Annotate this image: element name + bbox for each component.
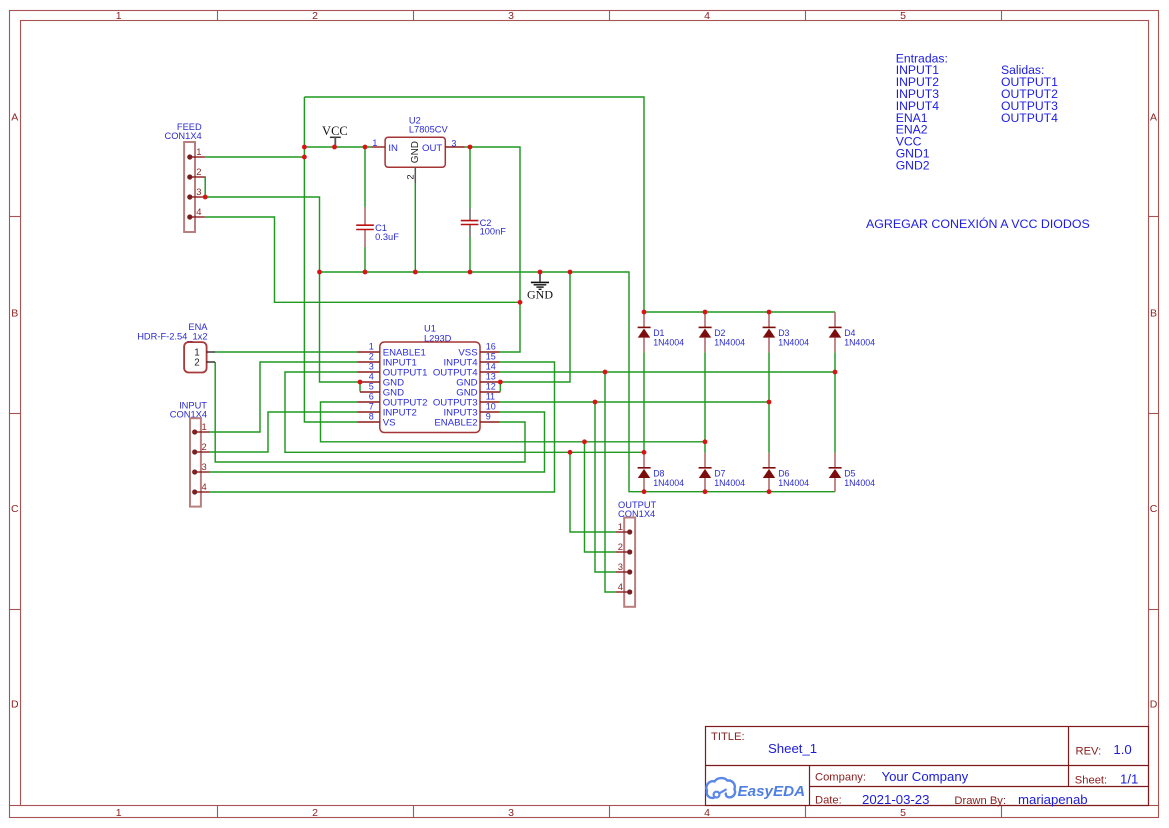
junction VCC rail at trunk bbox=[302, 145, 307, 150]
svg-text:4: 4 bbox=[704, 10, 710, 22]
svg-text:B: B bbox=[11, 307, 18, 319]
capacitor C2 100nF bbox=[461, 208, 506, 237]
connector OUTPUT CON1X4 bbox=[616, 500, 657, 607]
svg-text:4: 4 bbox=[202, 481, 207, 492]
junction C1 top bbox=[363, 145, 368, 150]
note AGREGAR CONEXION A VCC DIODOS bbox=[866, 216, 1090, 231]
wire ENA pin1 to U1 ENABLE1 bbox=[215, 351, 358, 353]
svg-text:15: 15 bbox=[486, 351, 496, 361]
svg-text:U1: U1 bbox=[424, 323, 436, 333]
wire diode column D4-D5 bbox=[834, 352, 836, 452]
wire INPUT pin3 to U1 INPUT3 bbox=[210, 412, 545, 472]
junction C2 top bbox=[468, 145, 473, 150]
wire diode column D3-D6 bbox=[768, 352, 770, 452]
note Salidas list bbox=[1001, 63, 1058, 125]
junction VCC flag bbox=[332, 145, 337, 150]
junction GND flag at rail bbox=[538, 270, 543, 275]
svg-text:Date:: Date: bbox=[815, 794, 842, 806]
note Entradas list bbox=[896, 51, 948, 172]
svg-text:1N4004: 1N4004 bbox=[653, 337, 684, 347]
svg-text:2: 2 bbox=[312, 10, 318, 22]
svg-text:2: 2 bbox=[196, 166, 201, 177]
wire GND: FEED pin2 jog bbox=[204, 177, 206, 197]
diode D3 1N4004 bbox=[763, 312, 810, 352]
net flag VCC bbox=[322, 124, 348, 147]
wire C2 top connection bbox=[469, 147, 471, 208]
diode D4 1N4004 bbox=[829, 312, 876, 352]
wire GND tie U1 pin4-pin5 bbox=[359, 382, 361, 392]
diode D7 1N4004 bbox=[699, 453, 746, 492]
svg-text:Sheet_1: Sheet_1 bbox=[768, 741, 817, 756]
svg-text:14: 14 bbox=[486, 361, 496, 371]
wire GND tie U1 pin13-pin12 bbox=[499, 382, 501, 392]
wire net OUTPUT4 drop to OUTPUT pin4 bbox=[605, 372, 616, 592]
wire 5V: FEED pin4 tap bbox=[205, 217, 520, 302]
diode D5 1N4004 bbox=[829, 453, 876, 492]
svg-text:6: 6 bbox=[369, 391, 374, 401]
svg-text:A: A bbox=[11, 112, 18, 124]
wire net OUTPUT2: U1 pin6 loop to D2/D7 junction bbox=[321, 402, 706, 442]
junction D4/D5 mid bbox=[833, 370, 838, 375]
svg-text:AGREGAR CONEXIÓN A VCC DIODOS: AGREGAR CONEXIÓN A VCC DIODOS bbox=[866, 216, 1090, 231]
wire U2 pin2 to GND rail bbox=[414, 183, 416, 272]
svg-text:2: 2 bbox=[194, 358, 199, 369]
wire GND rail to diode bottom bus bbox=[320, 272, 836, 492]
svg-text:VCC: VCC bbox=[322, 124, 348, 138]
svg-text:1: 1 bbox=[116, 807, 122, 819]
wire net OUTPUT1 drop to OUTPUT pin1 bbox=[570, 452, 616, 532]
svg-text:12: 12 bbox=[486, 381, 496, 391]
wire net OUTPUT3: U1 pin11 to D3/D6 junction bbox=[500, 401, 770, 403]
svg-text:1N4004: 1N4004 bbox=[778, 337, 809, 347]
wire net OUTPUT3 drop to OUTPUT pin3 bbox=[595, 402, 616, 572]
svg-text:3: 3 bbox=[508, 807, 514, 819]
svg-text:4: 4 bbox=[704, 807, 710, 819]
junction D1 top bus bbox=[642, 310, 647, 315]
svg-text:9: 9 bbox=[486, 411, 491, 421]
junction GND rail left end bbox=[317, 270, 322, 275]
svg-text:2: 2 bbox=[312, 807, 318, 819]
svg-text:1N4004: 1N4004 bbox=[844, 337, 875, 347]
diode D1 1N4004 bbox=[638, 312, 685, 352]
wire C1 top connection bbox=[364, 147, 366, 207]
EasyEDA logo bbox=[706, 778, 805, 800]
svg-text:7: 7 bbox=[369, 401, 374, 411]
svg-text:2: 2 bbox=[369, 351, 374, 361]
svg-text:3: 3 bbox=[202, 461, 207, 472]
wire GND: rail to U1 pin13 bbox=[500, 272, 570, 382]
svg-text:1N4004: 1N4004 bbox=[714, 337, 745, 347]
diode D6 1N4004 bbox=[763, 453, 810, 492]
svg-text:100nF: 100nF bbox=[480, 227, 507, 237]
svg-text:1/1: 1/1 bbox=[1120, 772, 1138, 787]
wire diode column D1-D8 bbox=[643, 352, 645, 452]
connector INPUT CON1X4 bbox=[170, 400, 210, 506]
wire C2 bottom to GND rail bbox=[469, 237, 471, 272]
svg-text:mariapenab: mariapenab bbox=[1018, 792, 1088, 807]
IC U1 L293D bbox=[358, 323, 501, 432]
svg-text:0.3uF: 0.3uF bbox=[375, 232, 399, 242]
svg-text:HDR-F-2.54_1x2: HDR-F-2.54_1x2 bbox=[137, 331, 207, 341]
svg-text:Drawn By:: Drawn By: bbox=[954, 795, 1006, 807]
svg-text:2: 2 bbox=[618, 541, 623, 552]
svg-text:GND: GND bbox=[410, 141, 421, 163]
svg-text:1: 1 bbox=[618, 521, 623, 532]
wire VCC diode top bus bbox=[644, 311, 835, 313]
wire INPUT pin4 to U1 INPUT4 bbox=[210, 362, 555, 492]
svg-text:3: 3 bbox=[508, 10, 514, 22]
junction D2 top bus bbox=[703, 310, 708, 315]
wire net OUTPUT1: U1 pin3 loop to D1/D8 junction bbox=[285, 372, 644, 452]
svg-text:13: 13 bbox=[486, 371, 496, 381]
wire VCC top loop to diode top bus bbox=[304, 97, 644, 312]
svg-text:C: C bbox=[11, 503, 19, 515]
svg-text:Company:: Company: bbox=[815, 772, 866, 784]
junction D2/D7 mid bbox=[703, 439, 708, 444]
svg-text:3: 3 bbox=[196, 186, 201, 197]
junction GND branch at rail bbox=[568, 270, 573, 275]
wire net OUTPUT2 drop to OUTPUT pin2 bbox=[585, 442, 617, 552]
svg-text:D: D bbox=[1150, 699, 1158, 711]
wire INPUT pin2 to U1 INPUT2 bbox=[210, 412, 358, 452]
svg-text:L7805CV: L7805CV bbox=[409, 124, 449, 134]
junction D1/D8 mid bbox=[642, 450, 647, 455]
svg-text:Sheet:: Sheet: bbox=[1075, 775, 1107, 787]
svg-text:1: 1 bbox=[202, 421, 207, 432]
title block bbox=[706, 727, 1149, 807]
junction D6 bottom bus bbox=[767, 489, 772, 494]
connector ENA HDR-F-2.54_1x2 bbox=[137, 322, 215, 372]
junction OUTPUT2 drop bbox=[582, 439, 587, 444]
junction U1 pin4 GND bbox=[358, 380, 363, 385]
junction U1 pin13 GND bbox=[498, 380, 503, 385]
junction D7 bottom bus bbox=[703, 489, 708, 494]
svg-text:1N4004: 1N4004 bbox=[844, 478, 875, 488]
svg-text:A: A bbox=[1150, 112, 1157, 124]
svg-text:REV:: REV: bbox=[1076, 745, 1102, 757]
junction FEED pin1 at trunk bbox=[302, 155, 307, 160]
svg-text:8: 8 bbox=[369, 411, 374, 421]
svg-text:GND: GND bbox=[527, 288, 553, 302]
svg-text:4: 4 bbox=[618, 581, 623, 592]
svg-text:1N4004: 1N4004 bbox=[778, 478, 809, 488]
diode D2 1N4004 bbox=[699, 312, 746, 352]
net flag GND / ground bbox=[527, 272, 553, 302]
svg-text:ENABLE2: ENABLE2 bbox=[434, 417, 477, 428]
svg-text:VS: VS bbox=[383, 417, 396, 428]
junction OUTPUT4 drop bbox=[603, 370, 608, 375]
svg-text:Your Company: Your Company bbox=[882, 769, 969, 784]
svg-text:5: 5 bbox=[369, 381, 374, 391]
svg-text:D: D bbox=[11, 699, 19, 711]
diode D8 1N4004 bbox=[638, 452, 685, 491]
svg-text:1: 1 bbox=[116, 10, 122, 22]
regulator U2 L7805CV bbox=[372, 116, 465, 183]
svg-text:5: 5 bbox=[900, 807, 906, 819]
wire net OUTPUT4: U1 pin14 to D4/D5 junction bbox=[500, 371, 836, 373]
svg-text:10: 10 bbox=[486, 401, 496, 411]
svg-text:TITLE:: TITLE: bbox=[711, 731, 745, 743]
wire VCC vertical trunk to U1 pin8 VS bbox=[304, 97, 357, 422]
junction D3 top bus bbox=[767, 310, 772, 315]
svg-text:3: 3 bbox=[451, 139, 456, 149]
svg-text:2: 2 bbox=[404, 174, 415, 179]
junction 5V tap FEED pin4 bbox=[518, 300, 523, 305]
wire diode column D2-D7 bbox=[704, 352, 706, 452]
svg-text:3: 3 bbox=[369, 361, 374, 371]
wire GND: FEED pin3 to U1 GND pins bbox=[205, 197, 358, 382]
svg-text:16: 16 bbox=[486, 341, 496, 351]
svg-text:EasyEDA: EasyEDA bbox=[738, 783, 806, 800]
junction D3/D6 mid bbox=[767, 400, 772, 405]
svg-text:1: 1 bbox=[196, 146, 201, 157]
junction D8 bottom bus bbox=[642, 489, 647, 494]
svg-text:2: 2 bbox=[202, 441, 207, 452]
svg-text:GND2: GND2 bbox=[896, 158, 930, 172]
svg-text:11: 11 bbox=[486, 391, 495, 401]
svg-text:1.0: 1.0 bbox=[1113, 742, 1131, 757]
junction OUTPUT1 drop bbox=[568, 450, 573, 455]
svg-text:OUT: OUT bbox=[422, 143, 442, 154]
wire VCC rail to U2 IN bbox=[304, 146, 371, 148]
svg-text:1N4004: 1N4004 bbox=[653, 478, 684, 488]
svg-text:1: 1 bbox=[372, 138, 377, 148]
svg-text:5: 5 bbox=[900, 10, 906, 22]
connector FEED CON1X4 bbox=[164, 122, 204, 232]
wire INPUT pin1 to U1 INPUT1 bbox=[210, 362, 358, 432]
wire ENA pin2 to U1 ENABLE2 bbox=[215, 362, 525, 462]
svg-text:CON1X4: CON1X4 bbox=[164, 131, 201, 141]
junction C2 bottom bbox=[468, 270, 473, 275]
wire VCC: FEED pin1 to vertical trunk bbox=[205, 156, 305, 158]
svg-text:1N4004: 1N4004 bbox=[714, 478, 745, 488]
svg-text:4: 4 bbox=[369, 371, 374, 381]
svg-text:OUTPUT4: OUTPUT4 bbox=[1001, 111, 1058, 125]
junction OUTPUT3 drop bbox=[593, 400, 598, 405]
svg-text:2021-03-23: 2021-03-23 bbox=[862, 792, 929, 807]
svg-text:1: 1 bbox=[369, 341, 374, 351]
wire 5V: U2 OUT to U1 pin16 VSS bbox=[465, 147, 520, 352]
svg-text:3: 3 bbox=[618, 561, 623, 572]
wire C1 bottom to GND rail bbox=[364, 247, 366, 272]
svg-text:4: 4 bbox=[196, 206, 201, 217]
svg-text:IN: IN bbox=[388, 143, 398, 154]
junction U2 pin2 at rail bbox=[413, 270, 418, 275]
junction C1 bottom bbox=[363, 270, 368, 275]
capacitor C1 0.3uF bbox=[356, 207, 399, 247]
junction FEED pin2/pin3 bbox=[203, 195, 208, 200]
svg-text:C: C bbox=[1150, 503, 1158, 515]
svg-text:B: B bbox=[1150, 307, 1157, 319]
